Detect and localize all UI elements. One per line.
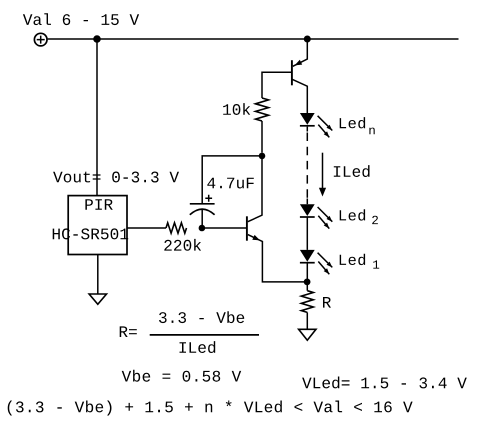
label Led_n <box>340 117 365 128</box>
Led_2 emission arrows <box>318 207 333 229</box>
Q2 emitter arrow (NPN) <box>252 235 260 241</box>
PIR module HC-SR501 box <box>68 196 127 255</box>
formula VLed= 1.5 - 3.4 V <box>302 377 467 389</box>
LED Led_2 <box>300 204 315 217</box>
ILed current arrow <box>322 153 324 188</box>
wire R to ground <box>306 312 308 329</box>
label Val 6 - 15 V <box>23 13 139 25</box>
formula Vbe = 0.58 V <box>122 370 242 382</box>
fraction bar <box>150 334 259 336</box>
Led_n emission arrows <box>318 116 333 138</box>
junction node B (base/cap) <box>199 225 206 232</box>
wire node C to Q2 collector <box>248 156 262 222</box>
ground at PIR <box>89 294 106 304</box>
wire 10k to Q1 base <box>262 72 292 98</box>
LED Led_1 <box>300 250 315 263</box>
wire Led_n cathode <box>306 127 308 132</box>
label HC-SR501 <box>53 228 129 239</box>
formula numerator 3.3 - Vbe <box>159 311 244 323</box>
wire Q1 collector to Led_n <box>292 79 307 113</box>
label 10k <box>223 103 250 115</box>
LED Led_n <box>300 113 315 126</box>
transistor Q1 PNP base bar <box>291 60 293 85</box>
wire Q2 emitter to node D <box>248 235 307 282</box>
label PIR <box>85 199 112 210</box>
formula supply constraint <box>8 401 413 416</box>
wire Q1 emitter <box>293 39 308 66</box>
wire supply rail <box>48 38 459 40</box>
junction supply/PIR <box>93 35 101 43</box>
resistor 10k <box>256 98 269 121</box>
label 220k <box>164 239 201 251</box>
label R <box>323 297 331 308</box>
capacitor C1 4.7uF <box>190 195 215 215</box>
wire PIR output <box>127 227 166 229</box>
label 4.7uF <box>207 178 254 189</box>
junction node D (emitter/R) <box>304 279 311 286</box>
label Vout= 0-3.3 V <box>53 172 179 183</box>
Led_1 emission arrows <box>318 253 333 275</box>
resistor 220k <box>166 223 187 233</box>
ground at R <box>299 329 316 340</box>
transistor Q2 NPN base bar <box>246 216 248 240</box>
resistor R <box>301 291 313 313</box>
junction node C (10k/collector) <box>259 153 266 160</box>
wire supply to PIR <box>96 39 98 196</box>
wire PIR ground lead <box>97 255 99 295</box>
wire to Led_2 anode <box>306 199 308 205</box>
wire Led_1 to node D <box>306 263 308 291</box>
Q1 emitter arrow (PNP) <box>295 60 303 66</box>
wire 10k bottom lead <box>261 121 263 153</box>
label ILed <box>334 165 370 177</box>
wire Led_2 to Led_1 <box>306 217 308 250</box>
junction supply/Q1 emitter <box>304 36 311 43</box>
formula R= <box>120 326 137 337</box>
formula denominator ILed <box>180 341 216 353</box>
power terminal Val (+) <box>34 33 47 46</box>
wire cap plus to node C <box>202 156 262 204</box>
label Led_2 <box>340 209 365 220</box>
wire cap minus lead <box>201 210 203 229</box>
dashed wire LED chain <box>306 133 308 199</box>
wire node B to Q2 base <box>202 227 247 229</box>
label Led_1 <box>340 254 365 265</box>
